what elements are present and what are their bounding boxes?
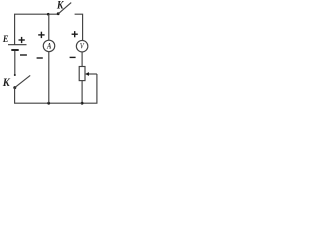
wire battery to switch contact [14,51,16,75]
node J4 bottom junction rheostat branch [81,102,84,105]
plus sign of ammeter [38,32,44,38]
minus sign of ammeter [37,57,43,59]
wire ammeter branch upper [48,14,50,40]
svg-text:K: K [2,77,11,90]
rheostat wiper arrow [89,73,97,75]
wire wiper to bottom-right corner [82,74,97,103]
wire voltmeter to rheostat [81,52,83,67]
node switch K (bottom) fixed contact [14,74,16,76]
switch K (top) lever [58,3,71,14]
battery E negative short plate [11,49,18,51]
plus sign of voltmeter [72,31,78,37]
ammeter U1 circle [43,40,55,52]
wire bottom bus [15,102,83,104]
wire top bus from left corner to switch pivot [15,14,59,44]
battery E positive long plate [8,44,27,46]
minus sign of voltmeter [70,56,76,58]
node J1 top junction to ammeter branch [47,13,50,16]
plus sign of battery [19,37,25,43]
wire switch pivot to bottom-left corner [14,88,16,104]
voltmeter U2 circle [76,40,88,52]
switch K (bottom) lever [15,75,30,87]
svg-text:E: E [2,33,9,44]
node J3 bottom junction ammeter branch [47,102,50,105]
wire rheostat bottom lead [81,81,83,104]
node J2 switch K pivot [57,12,60,15]
rheostat R body [79,67,85,81]
wire top-right stub and right corner down to voltmeter [75,14,83,40]
wire ammeter branch lower [48,52,50,104]
minus sign of battery [20,54,27,56]
svg-text:K: K [56,0,64,12]
node switch K (bottom) pivot [13,86,16,89]
svg-text:A: A [46,40,51,50]
